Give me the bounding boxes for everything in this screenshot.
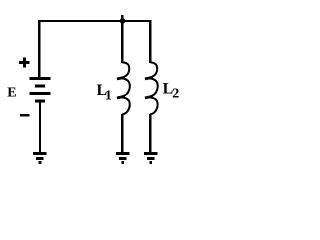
svg-text:1: 1: [105, 88, 112, 103]
svg-text:2: 2: [172, 87, 179, 102]
svg-text:E: E: [7, 86, 16, 101]
